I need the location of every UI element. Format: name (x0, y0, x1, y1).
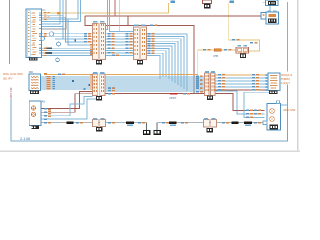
svg-text:2-106: 2-106 (20, 136, 31, 141)
svg-text:IPB: IPB (214, 54, 219, 58)
svg-text:1(1)FY: 1(1)FY (281, 81, 290, 85)
svg-text:DPDT: DPDT (170, 96, 177, 100)
svg-text:W/G (3.0L 5W): W/G (3.0L 5W) (3, 72, 23, 76)
svg-text:(D) IFY: (D) IFY (3, 77, 13, 81)
svg-text:MPI CM: MPI CM (9, 87, 13, 98)
svg-text:AD: AD (42, 100, 46, 104)
svg-text:UDC RW: UDC RW (283, 108, 295, 112)
svg-text:MD: MD (29, 70, 33, 74)
